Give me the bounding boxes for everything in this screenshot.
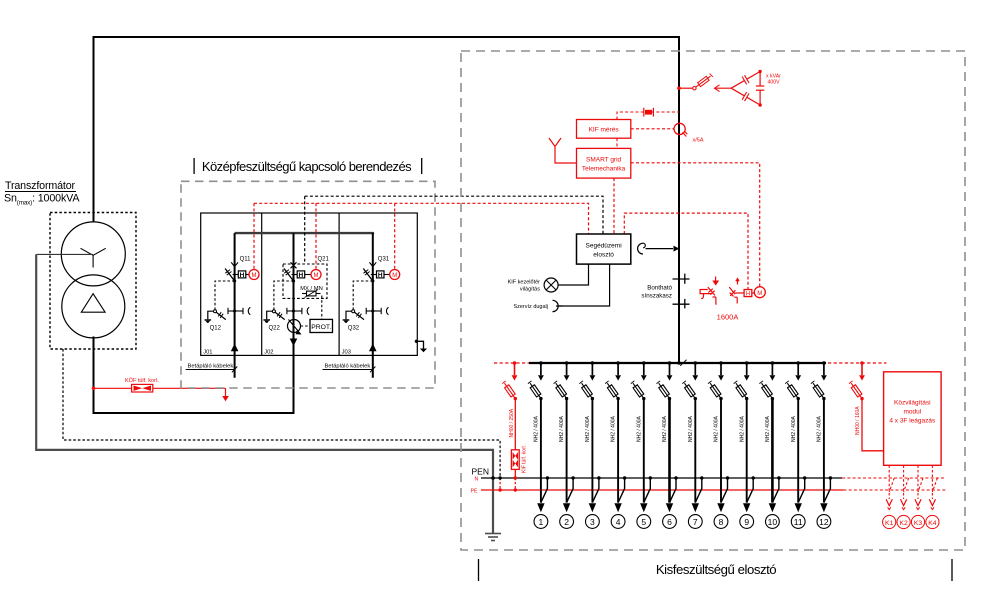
- svg-text:Telemechanika: Telemechanika: [582, 166, 626, 173]
- surge arrester KOF tulf. korl.: [92, 377, 229, 401]
- incoming cable arrow bay J01: [231, 344, 239, 352]
- svg-text:NH2 / 400A: NH2 / 400A: [636, 415, 642, 442]
- svg-text:NH2 / 400A: NH2 / 400A: [611, 415, 617, 442]
- svg-text:9: 9: [744, 517, 749, 527]
- motor drive M bay J01: [249, 270, 259, 280]
- svg-text:5: 5: [641, 517, 646, 527]
- svg-text:2: 2: [564, 517, 569, 527]
- wire control to M (dashed): [253, 203, 255, 269]
- wire trip coil to PROT (dashed): [321, 296, 323, 320]
- svg-text:NH2 / 400A: NH2 / 400A: [791, 415, 797, 442]
- telemechanics box SMART grid: [577, 148, 631, 178]
- auxiliary distribution box Segeduzemi eloszto: [577, 234, 631, 264]
- svg-text:H: H: [378, 272, 383, 279]
- feeder 7 (NH2/400A): [682, 361, 703, 528]
- voltage presence indicator bay J01: [228, 307, 250, 314]
- MV switchgear enclosure (dashed): [181, 181, 435, 388]
- switch-fuse compensation branch: [677, 74, 731, 92]
- svg-text:M: M: [392, 273, 397, 279]
- svg-text:N: N: [475, 477, 479, 483]
- transformer T1: [61, 222, 125, 338]
- svg-text:M: M: [314, 273, 319, 279]
- motor drive M bay J02: [311, 270, 321, 280]
- svg-text:NH2 / 400A: NH2 / 400A: [662, 415, 668, 442]
- incoming cable arrow bay J03: [369, 344, 377, 352]
- svg-text:1600A: 1600A: [717, 313, 739, 322]
- svg-text:Középfeszültségű kapcsoló bere: Középfeszültségű kapcsoló berendezés: [202, 159, 412, 174]
- wire SMART to aux (dashed): [613, 178, 615, 234]
- svg-text:Szervíz dugalj: Szervíz dugalj: [513, 304, 548, 310]
- wire bay J02 line: [293, 233, 295, 355]
- motor drive M bay J03: [390, 270, 400, 280]
- svg-text:400V: 400V: [768, 80, 781, 86]
- voltage presence indicator bay J03: [366, 307, 388, 314]
- feeder 11 (NH2/400A): [785, 361, 806, 528]
- wire transformer-secondary top feed: [94, 37, 680, 363]
- svg-text:NH2 / 400A: NH2 / 400A: [817, 415, 823, 442]
- svg-text:11: 11: [794, 517, 803, 527]
- svg-text:SMART grid: SMART grid: [586, 157, 622, 164]
- svg-text:PEN: PEN: [472, 467, 489, 477]
- feeder 3 (NH2/400A): [579, 361, 600, 528]
- svg-text:8: 8: [719, 517, 724, 527]
- svg-text:3: 3: [590, 517, 595, 527]
- svg-text:H: H: [746, 291, 750, 297]
- svg-text:világítás: világítás: [520, 287, 540, 293]
- circuit breaker unit J02 (dashed enclosure): [283, 264, 327, 298]
- earthing switch Q22: [274, 281, 294, 310]
- outgoing cable arrow bay J02: [290, 339, 298, 347]
- svg-text:Betápláló kábelek: Betápláló kábelek: [325, 364, 371, 370]
- current transformer x/5A: [631, 128, 674, 130]
- feeder 9 (NH2/400A): [734, 361, 755, 528]
- svg-text:7: 7: [693, 517, 698, 527]
- svg-text:NH00 / 160A: NH00 / 160A: [855, 406, 861, 435]
- feeder 2 (NH2/400A): [554, 361, 575, 528]
- antenna: [549, 138, 577, 163]
- surge arrester KIF tulf. korl.: [511, 445, 527, 492]
- svg-text:KIF kezelőtér: KIF kezelőtér: [508, 280, 541, 286]
- cabinet earth connection: [415, 340, 418, 343]
- feeder 4 (NH2/400A): [605, 361, 626, 528]
- svg-text:Q31: Q31: [378, 257, 390, 263]
- svg-text:Q32: Q32: [348, 326, 360, 332]
- svg-text:Sn(max): 1000kVA: Sn(max): 1000kVA: [4, 193, 80, 207]
- svg-text:M: M: [252, 273, 257, 279]
- svg-text:Q12: Q12: [210, 326, 222, 332]
- svg-text:NH2 / 400A: NH2 / 400A: [585, 415, 591, 442]
- svg-text:KIF mérés: KIF mérés: [589, 127, 620, 134]
- svg-text:4: 4: [616, 517, 621, 527]
- svg-text:K4: K4: [928, 520, 937, 527]
- transformer T1 enclosure: [50, 213, 136, 350]
- voltage tap connector: [617, 112, 679, 120]
- svg-text:sínszakasz: sínszakasz: [641, 293, 672, 300]
- svg-text:H: H: [240, 272, 245, 279]
- svg-text:6: 6: [667, 517, 672, 527]
- svg-text:M: M: [757, 291, 762, 297]
- wire MV cable J02 to transformer primary: [94, 337, 294, 414]
- svg-text:NH2 / 400A: NH2 / 400A: [714, 415, 720, 442]
- circuit breaker 1600A (withdrawable): [700, 277, 716, 305]
- svg-text:10: 10: [768, 517, 778, 527]
- svg-text:KÖF túlf. korl.: KÖF túlf. korl.: [125, 377, 159, 384]
- svg-text:Betápláló kábelek: Betápláló kábelek: [188, 364, 234, 370]
- lighting circuit K4: [926, 465, 939, 528]
- current transformer J02: [288, 320, 301, 333]
- LV main busbar: [494, 362, 529, 364]
- MV switchgear cabinet box: [201, 213, 418, 355]
- feeder 5 (NH2/400A): [631, 361, 652, 528]
- separable busbar section marks: [673, 274, 690, 309]
- svg-text:K1: K1: [885, 520, 894, 527]
- metering box KIF meres: [577, 120, 631, 139]
- wire control to M (dashed): [394, 203, 396, 269]
- svg-text:NH2 / 400A: NH2 / 400A: [559, 415, 565, 442]
- wire PEN conductor from star point: [36, 253, 93, 255]
- wire SMART to M1600 (dashed): [631, 163, 760, 287]
- svg-text:1: 1: [539, 517, 544, 527]
- feeder 6 (NH2/400A): [657, 361, 678, 528]
- svg-text:KIF túlf. korl.: KIF túlf. korl.: [522, 445, 528, 473]
- wire lamp to aux box: [558, 264, 588, 285]
- wire control MV to aux distribution (black dashed): [305, 196, 603, 264]
- protection relay PROT: [310, 319, 333, 332]
- wire aux to H1600 (dashed): [624, 213, 748, 290]
- wire bay J03 line: [372, 233, 374, 378]
- svg-text:Q22: Q22: [269, 326, 281, 332]
- svg-text:Kisfeszültségű elosztó: Kisfeszültségű elosztó: [656, 562, 776, 577]
- wire transformer enclosure earth (dashed): [63, 349, 500, 478]
- svg-text:NH00 / 250A: NH00 / 250A: [509, 408, 515, 437]
- MV busbar: [235, 232, 375, 234]
- svg-text:H: H: [299, 272, 304, 279]
- svg-text:J02: J02: [264, 349, 273, 355]
- motor switch 1600A: [729, 279, 744, 304]
- wire control to M (dashed): [315, 203, 317, 269]
- svg-text:Bontható: Bontható: [647, 285, 672, 292]
- fuse NH00/250A aux feeder: [502, 361, 517, 450]
- fuse NH00/160A public lighting feeder: [849, 361, 884, 451]
- svg-text:Q21: Q21: [318, 257, 330, 263]
- capacitor bank x kVAr 400V: [731, 70, 781, 107]
- earthing switch Q32: [353, 281, 373, 310]
- svg-text:J03: J03: [342, 349, 351, 355]
- svg-text:NH2 / 400A: NH2 / 400A: [765, 415, 771, 442]
- svg-text:NH2 / 400A: NH2 / 400A: [688, 415, 694, 442]
- voltage presence indicator bay J02: [287, 307, 309, 314]
- wire socket to aux box: [559, 264, 610, 306]
- ground (PEN earthing): [485, 534, 501, 541]
- wire bay J01 line: [234, 233, 236, 378]
- svg-text:PE: PE: [471, 489, 478, 495]
- svg-text:NH2 / 400A: NH2 / 400A: [534, 415, 540, 442]
- public lighting module box: [884, 372, 942, 466]
- svg-text:Q11: Q11: [240, 257, 252, 263]
- feeder 1 (NH2/400A): [528, 361, 549, 528]
- feeder 12 (NH2/400A): [811, 361, 832, 528]
- svg-text:elosztó: elosztó: [593, 252, 614, 259]
- svg-text:Segédüzemi: Segédüzemi: [586, 243, 622, 250]
- wire KIF meres to SMART (dashed): [616, 138, 618, 148]
- plug-in connection to main line: [638, 243, 646, 254]
- svg-text:12: 12: [819, 517, 829, 527]
- lighting circuit K2: [897, 465, 910, 528]
- wire CT to PROT (dashed): [301, 325, 311, 327]
- svg-text:J01: J01: [203, 349, 212, 355]
- svg-text:Közvilágítási: Közvilágítási: [894, 400, 931, 407]
- svg-text:PROT.: PROT.: [311, 324, 331, 331]
- wire motor control bus (red dashed): [254, 203, 589, 234]
- svg-text:Transzformátor: Transzformátor: [5, 180, 76, 192]
- svg-text:K3: K3: [914, 520, 923, 527]
- svg-text:modul: modul: [903, 409, 921, 416]
- svg-text:NH2 / 400A: NH2 / 400A: [739, 415, 745, 442]
- lighting circuit K3: [911, 465, 924, 528]
- lighting circuit K1: [883, 465, 896, 528]
- svg-text:4 x 3F leágazás: 4 x 3F leágazás: [889, 418, 936, 425]
- svg-text:K2: K2: [899, 520, 908, 527]
- svg-text:x/5A: x/5A: [693, 138, 704, 144]
- feeder 8 (NH2/400A): [708, 361, 729, 528]
- feeder 10 (NH2/400A): [759, 361, 780, 528]
- earthing switch Q12: [215, 281, 235, 310]
- LV distribution enclosure (dashed): [461, 51, 965, 550]
